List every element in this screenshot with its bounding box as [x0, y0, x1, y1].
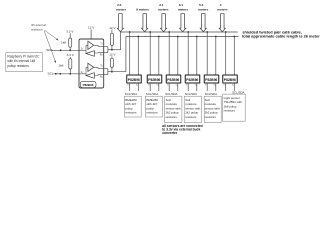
op-amp buffer U5 P82B96 [185, 75, 200, 83]
cable length arrow 2: 9 meters [136, 7, 149, 31]
sensor S2 BME280 [145, 96, 162, 117]
svg-text:SCL/SDA: SCL/SDA [185, 92, 197, 96]
resistor R1 1k8 SDA pullup [69, 33, 72, 50]
svg-text:P82B96: P82B96 [186, 78, 198, 82]
junction dot bus2 tap U2 [137, 36, 139, 38]
cable length arrow 1: 2.5 meters [116, 3, 126, 32]
junction dot SCL a [55, 73, 57, 75]
wire U4 Sy to sensor [177, 83, 179, 91]
svg-text:9 meters: 9 meters [136, 7, 149, 11]
junction dot node2/R4 [111, 71, 113, 73]
svg-text:SCL/SDA: SCL/SDA [146, 92, 158, 96]
svg-text:SCL: SCL [48, 72, 54, 76]
wire SDA bus line [121, 31, 238, 33]
svg-text:1k8: 1k8 [61, 40, 66, 44]
svg-text:SCL/SDA: SCL/SDA [232, 90, 244, 94]
svg-text:pullup resistors: pullup resistors [7, 64, 29, 68]
wire chip supply [90, 30, 92, 40]
junction dot bus1 tap U2 [129, 31, 131, 33]
wire Rx1 input [94, 52, 103, 54]
svg-text:P82B96: P82B96 [148, 78, 160, 82]
svg-text:SCL/SDA: SCL/SDA [165, 92, 177, 96]
wire Sx input split [80, 45, 88, 53]
op-amp buffer U7 P82B96 [223, 75, 238, 83]
svg-text:Sx: Sx [205, 85, 207, 87]
wire U5 Sx to sensor [187, 83, 189, 91]
buffer Ry channel 2 triangle [86, 73, 94, 79]
sensor S4 soil moisture [184, 96, 201, 122]
buffer Rx channel 1 triangle [86, 51, 94, 57]
wire riser node1 to SDA bus [120, 32, 122, 50]
wire U6 Sx to sensor [206, 83, 208, 91]
wire U3 Sy to sensor [158, 83, 160, 91]
svg-text:Sy: Sy [136, 85, 138, 87]
svg-text:Sy: Sy [194, 85, 196, 87]
svg-text:P82B96: P82B96 [83, 83, 94, 87]
wire bus2 tap to chip U7 [233, 37, 235, 76]
cable length arrow 3: 2.1 meters [158, 3, 168, 32]
cable length arrow 5: 5.4 meters [198, 3, 208, 32]
wire U7 Sy to sensor [233, 83, 235, 91]
wire U6 Sy to sensor [215, 83, 217, 91]
wire bus2 tap to chip U4 [177, 37, 179, 76]
svg-text:Sy: Sy [156, 85, 158, 87]
junction dot SDA a [60, 49, 62, 51]
svg-text:Sy: Sy [175, 85, 177, 87]
junction dot bus2 tap U3 [158, 36, 160, 38]
svg-text:Sx: Sx [186, 85, 188, 87]
junction dot bus2 tap U5 [196, 36, 198, 38]
buffer Tx channel 1 triangle [88, 41, 94, 49]
wire SCL bus line [126, 36, 239, 38]
cable length arrow 6: 4 meters [217, 3, 227, 32]
wire Tx1 output [94, 45, 104, 46]
junction dot bus2 tap U4 [177, 36, 179, 38]
resistor R3 12V pullup channel1 [110, 30, 113, 50]
resistor R2 1k8 SCL pullup [69, 57, 72, 74]
cable length arrow 4: 3.1 meters [178, 3, 188, 32]
wire U2 Sy to sensor [137, 83, 139, 91]
note: all sensors power [162, 124, 203, 135]
U1 P82B96 name tag [80, 81, 96, 87]
svg-text:total approximate cable length: total approximate cable length is 26 met… [242, 34, 320, 39]
wire bus2 tap to chip U6 [215, 37, 217, 76]
junction dot SCL b [59, 73, 61, 75]
svg-text:converter: converter [162, 131, 178, 135]
wire Sy input split [80, 67, 88, 75]
wire Ry2 input [94, 74, 103, 77]
junction dot bus1 tap U7 [225, 31, 227, 33]
resistor R4 12V pullup channel2 [110, 56, 113, 71]
wire bus1 tap to chip U5 [187, 32, 189, 75]
wire bus2 tap to chip U2 [137, 37, 139, 76]
sensor S6 light TSL2591 [223, 94, 246, 121]
svg-text:12 V: 12 V [109, 26, 116, 30]
svg-text:3.3 V: 3.3 V [67, 53, 75, 57]
wire bus1 tap to chip U2 [129, 32, 131, 75]
wire U5 Sy to sensor [196, 83, 198, 91]
svg-text:12 V: 12 V [88, 26, 95, 30]
sensor S5 soil moisture [204, 96, 221, 122]
op-amp buffer U2 P82B96 [127, 75, 142, 83]
svg-text:Sx: Sx [148, 85, 150, 87]
wire bus1 tap to chip U3 [149, 32, 151, 75]
svg-text:resistors: resistors [125, 111, 137, 115]
junction dot bus1 tap U4 [168, 31, 170, 33]
wire Tx/Rx channel 1 output joint [104, 46, 121, 52]
svg-text:P82B96: P82B96 [167, 78, 179, 82]
wire U2 Sx to sensor [129, 83, 131, 91]
svg-text:meters: meters [116, 7, 126, 11]
wire Ty2 output [94, 67, 104, 68]
wire Ty/Ry channel 2 output joint [104, 68, 126, 74]
junction dot bus1 tap U6 [206, 31, 208, 33]
wire riser node2 to SCL bus [125, 37, 127, 72]
wire U7 Sx to sensor [225, 83, 227, 91]
svg-text:with it's internal 1k8: with it's internal 1k8 [7, 59, 35, 63]
svg-text:Raspberry Pi main I2C: Raspberry Pi main I2C [7, 55, 40, 59]
svg-text:P82B96: P82B96 [205, 78, 217, 82]
op-amp buffer U4 P82B96 [166, 75, 181, 83]
svg-text:Sy: Sy [232, 85, 234, 87]
svg-text:Sx: Sx [223, 85, 225, 87]
annotation arrow to resistor R2 [44, 31, 55, 62]
svg-text:P82B96: P82B96 [224, 78, 236, 82]
op-amp buffer U6 P82B96 [204, 75, 219, 83]
junction dot bus1 tap U3 [149, 31, 151, 33]
junction dot bus2 tap U6 [215, 36, 217, 38]
op-amp buffer U3 P82B96 [147, 75, 162, 83]
wire U3 Sx to sensor [149, 83, 151, 91]
svg-text:Sx: Sx [127, 85, 129, 87]
junction dot node1/R3 [111, 49, 113, 51]
svg-text:3.3 V: 3.3 V [66, 30, 74, 34]
svg-text:resistors: resistors [31, 27, 43, 31]
wire U4 Sx to sensor [168, 83, 170, 91]
wire bus1 tap to chip U6 [206, 32, 208, 75]
wire SDA [52, 49, 80, 51]
svg-text:resistors: resistors [146, 111, 158, 115]
svg-text:P82B96: P82B96 [128, 78, 140, 82]
buffer Ty channel 2 triangle [88, 63, 94, 71]
svg-text:meters: meters [158, 7, 168, 11]
svg-text:resistors: resistors [224, 109, 236, 113]
wire SCL [54, 73, 80, 75]
op-amp buffer U1 P82B96 main chip box [79, 39, 104, 88]
svg-text:meters: meters [198, 7, 208, 11]
svg-text:Sx: Sx [167, 85, 169, 87]
junction dot bus1 tap U5 [187, 31, 189, 33]
svg-text:meters: meters [217, 7, 227, 11]
cable note text [242, 29, 320, 38]
wire bus1 tap to chip U7 [225, 32, 227, 75]
svg-text:SCL/SDA: SCL/SDA [205, 92, 217, 96]
sensor S1 BME280 [124, 96, 141, 117]
wire bus1 tap to chip U4 [168, 32, 170, 75]
Raspberry Pi note box [6, 53, 43, 72]
svg-text:SCL/SDA: SCL/SDA [125, 92, 137, 96]
annotation arrow to resistor R1 [45, 30, 58, 40]
svg-text:resistors: resistors [166, 115, 178, 119]
junction dot SDA/R1 [69, 49, 71, 51]
sensor S3 soil moisture [165, 96, 182, 122]
svg-text:12 V: 12 V [109, 53, 116, 57]
svg-text:resistors: resistors [185, 115, 197, 119]
svg-text:meters: meters [178, 7, 188, 11]
junction dot SCL/R2 [69, 73, 71, 75]
svg-text:1k8: 1k8 [58, 63, 63, 67]
annotation label: rPi internal resistors [31, 23, 46, 31]
svg-text:Sy: Sy [213, 85, 215, 87]
wire bus2 tap to chip U3 [158, 37, 160, 76]
junction dot bus2 tap U7 [233, 36, 235, 38]
svg-text:resistors: resistors [205, 115, 217, 119]
wire bus2 tap to chip U5 [196, 37, 198, 76]
